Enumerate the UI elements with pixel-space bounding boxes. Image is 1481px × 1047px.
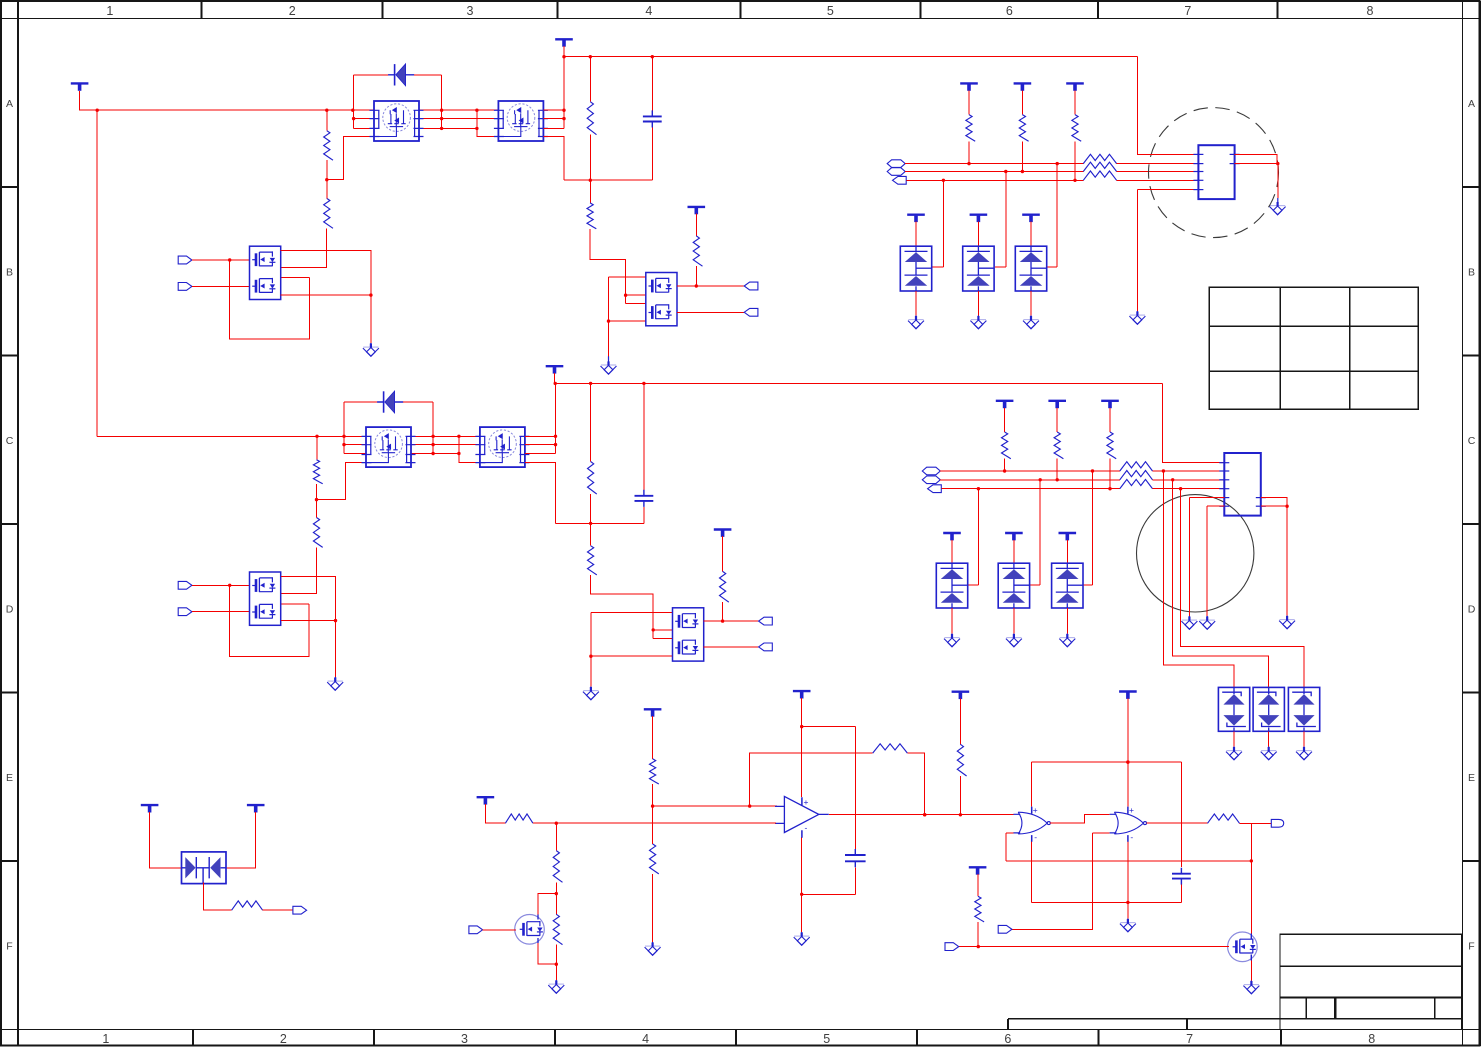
resistor R gate1 ch2 bbox=[313, 460, 322, 484]
resistor R gate2 ch2 bbox=[313, 518, 322, 548]
wire phase p1 bbox=[419, 109, 498, 111]
junction bbox=[431, 452, 434, 455]
svg-text:1: 1 bbox=[106, 4, 113, 18]
wire bbox=[695, 266, 697, 286]
TVS diode pair D bbox=[936, 563, 967, 608]
junction bbox=[315, 435, 318, 438]
wire bbox=[651, 128, 653, 181]
resistor output pull-up bbox=[957, 744, 966, 776]
motor connector J1 bbox=[1198, 145, 1234, 199]
wire bbox=[643, 507, 645, 524]
svg-text:A: A bbox=[1468, 98, 1475, 110]
TVS diode pair D bbox=[900, 246, 931, 291]
pin EN bbox=[945, 943, 959, 951]
wire phase p1 ch2 bbox=[411, 435, 480, 437]
wire IN1A bbox=[192, 259, 250, 261]
wire bbox=[589, 57, 591, 102]
wire U3 gate b bbox=[626, 303, 646, 305]
wire bbox=[590, 494, 592, 523]
wire bbox=[951, 608, 953, 634]
wire bbox=[1092, 832, 1109, 834]
wire hall bus w3 bbox=[906, 179, 1083, 181]
power flag TVS R bbox=[247, 804, 265, 806]
wire Q1 gate bbox=[483, 929, 516, 931]
wire Q1 source loop bbox=[538, 943, 556, 964]
svg-text:2: 2 bbox=[280, 1032, 287, 1046]
wire phase p2 ch2 bbox=[411, 444, 480, 446]
junction bbox=[352, 117, 355, 120]
wire comparator bottom loop bbox=[1032, 901, 1182, 903]
svg-text:B: B bbox=[6, 266, 13, 278]
wire op-amp V- down bbox=[801, 837, 803, 894]
wire bbox=[1153, 488, 1225, 490]
svg-text:-: - bbox=[1130, 832, 1133, 842]
wire U8B- input bbox=[1011, 833, 1092, 929]
capacitor snubber ch2 bbox=[635, 490, 654, 507]
junction bbox=[652, 628, 655, 631]
dual MOSFET driver U6 bbox=[673, 608, 704, 661]
junction bbox=[589, 655, 592, 658]
ground TVS bidi bbox=[1296, 747, 1312, 760]
wire hall bus w2 bbox=[905, 171, 1083, 173]
svg-text:8: 8 bbox=[1368, 1032, 1375, 1046]
wire Q2 source bbox=[1250, 960, 1252, 981]
title block bbox=[1280, 934, 1462, 1029]
wire IN2A bbox=[192, 584, 250, 586]
TVS diode pair D bbox=[1052, 563, 1083, 608]
junction bbox=[651, 55, 654, 58]
wire TVS1 tap bbox=[932, 180, 943, 267]
junction bbox=[315, 498, 318, 501]
wire +V to module M1 bbox=[80, 91, 374, 110]
wire bbox=[907, 753, 924, 815]
resistor feedback bbox=[873, 744, 908, 753]
pin DIR bbox=[998, 925, 1012, 933]
junction bbox=[1179, 487, 1182, 490]
junction bbox=[651, 804, 654, 807]
wire bbox=[1286, 506, 1288, 615]
junction bbox=[589, 179, 592, 182]
wire DC bus ch1 bbox=[564, 56, 1137, 58]
junction bbox=[1056, 478, 1059, 481]
wire bbox=[555, 894, 557, 915]
junction bbox=[1162, 469, 1165, 472]
ground TVS ch2 bbox=[1059, 634, 1075, 647]
pin HALL_C2 bbox=[928, 485, 942, 493]
capacitor comp filter bbox=[1172, 868, 1191, 885]
svg-text:-: - bbox=[1034, 832, 1037, 842]
svg-text:+: + bbox=[804, 797, 809, 807]
wire comp1 V- bbox=[1031, 840, 1033, 902]
svg-text:6: 6 bbox=[1004, 1032, 1011, 1046]
motor connector J2 bbox=[1224, 453, 1261, 516]
resistor series w3 ch2 bbox=[1120, 479, 1153, 488]
dual MOSFET driver U2 bbox=[250, 246, 281, 299]
motor M1 dashed outline bbox=[1149, 108, 1279, 238]
wire bbox=[1268, 731, 1270, 746]
junction bbox=[1276, 162, 1279, 165]
power flag bbox=[1048, 400, 1066, 402]
wire bbox=[1006, 833, 1014, 861]
junction bbox=[554, 382, 557, 385]
wire diode anode rail ch2 bbox=[343, 402, 345, 454]
wire rail ch2 bbox=[556, 522, 644, 524]
ground U5 bbox=[327, 678, 343, 691]
ground divider bbox=[645, 943, 661, 956]
wire vertical feed to channel 2 bbox=[96, 110, 98, 436]
resistor pull-up phase bbox=[1019, 115, 1028, 142]
wire bbox=[1153, 470, 1225, 472]
wire diode cathode rail ch2 bbox=[432, 402, 434, 454]
net flag HALL_B1 bbox=[887, 168, 905, 176]
bidirectional TVS D9 bbox=[182, 852, 227, 884]
op-amp U7 bbox=[784, 796, 818, 832]
wire bbox=[1030, 291, 1032, 316]
junction bbox=[1056, 162, 1059, 165]
svg-text:7: 7 bbox=[1186, 1032, 1193, 1046]
wire U8A out to U8B bbox=[1050, 814, 1109, 823]
svg-text:6: 6 bbox=[1006, 4, 1013, 18]
wire op-amp V+ pin bbox=[801, 698, 803, 797]
wire bbox=[1066, 608, 1068, 634]
wire hysteresis drop bbox=[1250, 823, 1252, 861]
wire to op-amp - bbox=[556, 822, 776, 824]
wire bbox=[1066, 540, 1068, 563]
wire U3 out1 bbox=[677, 285, 744, 287]
bidirectional TVS bbox=[1288, 687, 1319, 731]
wire TVS1 tap ch2 bbox=[968, 489, 979, 586]
wire U5 loop bbox=[230, 585, 309, 656]
wire M1 pin2 bbox=[354, 118, 374, 120]
wire hysteresis to U8A- bbox=[1006, 860, 1251, 862]
junction bbox=[607, 319, 610, 322]
wire Q2 gate line bbox=[959, 946, 1229, 948]
wire U2 loop bbox=[230, 260, 310, 339]
wire DC bus ch2 bbox=[555, 382, 1163, 384]
power flag bbox=[996, 400, 1014, 402]
svg-text:+: + bbox=[1129, 805, 1134, 815]
power flag comparators bbox=[1119, 690, 1137, 692]
ground TVS ch2 bbox=[1006, 634, 1022, 647]
pin IN1A bbox=[178, 256, 192, 264]
TVS diode pair D bbox=[963, 246, 994, 291]
wire rail ch1 bbox=[564, 179, 652, 181]
junction bbox=[1004, 170, 1007, 173]
motor M2 outline bbox=[1137, 495, 1254, 612]
wire to driver U3 bbox=[590, 229, 626, 304]
bidirectional TVS bbox=[1253, 687, 1284, 731]
wire U6 out2 bbox=[704, 646, 759, 648]
wire bbox=[722, 536, 724, 571]
junction bbox=[555, 963, 558, 966]
wire to driver U6 bbox=[591, 575, 654, 639]
pin IN1B bbox=[178, 283, 192, 291]
wire bbox=[722, 602, 724, 621]
svg-text:8: 8 bbox=[1367, 4, 1374, 18]
wire IN1B bbox=[192, 285, 250, 287]
wire bbox=[344, 401, 377, 403]
ground op-amp bbox=[794, 933, 810, 946]
resistor snubber ch2 bbox=[587, 462, 596, 495]
power MOSFET module M2 bbox=[494, 101, 548, 141]
resistor series w1 ch2 bbox=[1120, 462, 1153, 471]
junction bbox=[1126, 760, 1129, 763]
wire U3 left loop bbox=[609, 277, 646, 321]
wire bbox=[1056, 459, 1058, 480]
wire comp1 V+ bbox=[1031, 762, 1033, 807]
wire to M4 pin4 bbox=[459, 436, 480, 462]
wire bbox=[326, 110, 328, 131]
wire comp2 V- to ground bbox=[1127, 840, 1129, 919]
wire bbox=[555, 945, 557, 980]
wire bbox=[802, 726, 856, 728]
junction bbox=[695, 284, 698, 287]
junction bbox=[440, 117, 443, 120]
junction bbox=[721, 619, 724, 622]
diode D1 bbox=[388, 64, 414, 86]
ground motor2 b bbox=[1199, 617, 1215, 630]
wire motor2 pin6 bbox=[1207, 505, 1224, 507]
wire bbox=[1030, 222, 1032, 247]
junction bbox=[589, 522, 592, 525]
net flag HALL_A1 bbox=[887, 160, 905, 168]
svg-text:3: 3 bbox=[461, 1032, 468, 1046]
wire bbox=[652, 806, 654, 844]
wire U8B out bbox=[1146, 822, 1207, 824]
wire hall bus w2 ch2 bbox=[940, 479, 1120, 481]
resistor series w2 ch2 bbox=[1120, 470, 1153, 479]
wire bbox=[1004, 408, 1006, 432]
wire bbox=[652, 874, 654, 942]
power flag TVS bbox=[907, 213, 925, 215]
bidirectional TVS bbox=[1218, 687, 1249, 731]
junction bbox=[1039, 478, 1042, 481]
wire bbox=[959, 699, 961, 745]
diode D2 bbox=[377, 391, 403, 413]
ground motor1 bbox=[1129, 312, 1145, 325]
junction bbox=[1171, 478, 1174, 481]
pin PWM2H bbox=[759, 617, 773, 625]
ground TVS ch2 bbox=[944, 634, 960, 647]
ground TVS bidi bbox=[1226, 747, 1242, 760]
ground motor1 aux bbox=[1270, 202, 1286, 215]
junction bbox=[342, 443, 345, 446]
junction bbox=[334, 619, 337, 622]
wire bbox=[563, 57, 565, 129]
resistor pull-up phase bbox=[966, 115, 975, 142]
wire bbox=[150, 812, 181, 868]
power flag op-amp V+ bbox=[793, 690, 811, 692]
wire TVS3 tap bbox=[1047, 164, 1057, 267]
svg-text:A: A bbox=[6, 98, 13, 110]
MOSFET Q1 bbox=[515, 915, 545, 945]
wire bbox=[1021, 141, 1023, 171]
pin CTRL bbox=[469, 926, 483, 934]
wire M2 pin4 down bbox=[543, 137, 564, 181]
MOSFET Q2 bbox=[1228, 932, 1258, 962]
junction bbox=[440, 127, 443, 130]
wire U3 out2 bbox=[677, 311, 744, 313]
wire bbox=[977, 291, 979, 316]
svg-text:E: E bbox=[1468, 772, 1475, 784]
net flag HALL_B2 bbox=[922, 476, 940, 484]
capacitor op-amp bbox=[845, 849, 866, 867]
wire TVS tap bbox=[204, 883, 232, 911]
wire bbox=[1074, 91, 1076, 115]
junction bbox=[562, 117, 565, 120]
net flag HALL_A2 bbox=[922, 467, 940, 475]
junction bbox=[457, 452, 460, 455]
svg-text:C: C bbox=[1468, 435, 1476, 447]
wire diode anode rail bbox=[353, 75, 355, 128]
wire bbox=[326, 160, 328, 180]
wire M4 outputs bbox=[525, 436, 556, 453]
wire bbox=[1240, 822, 1272, 824]
power flag TVS bbox=[1022, 213, 1040, 215]
wire bbox=[403, 401, 433, 403]
resistor LS mid bbox=[553, 851, 562, 883]
power flag output pull bbox=[952, 691, 970, 693]
wire bbox=[589, 180, 591, 203]
resistor series w2 bbox=[1083, 162, 1116, 171]
wire bbox=[1117, 171, 1199, 173]
junction bbox=[1091, 469, 1094, 472]
wire bbox=[977, 222, 979, 247]
resistor pull-up phase bbox=[1001, 432, 1010, 459]
wire to op-amp + bbox=[653, 805, 777, 807]
junction bbox=[624, 294, 627, 297]
junction bbox=[369, 293, 372, 296]
junction bbox=[1073, 179, 1076, 182]
junction bbox=[440, 109, 443, 112]
ground TVS bidi bbox=[1261, 747, 1277, 760]
resistor output bbox=[1208, 814, 1240, 823]
wire op-amp output bbox=[829, 814, 1014, 816]
wire motor aux2 bbox=[1235, 164, 1278, 198]
junction bbox=[1126, 760, 1129, 763]
junction bbox=[1021, 170, 1024, 173]
wire bbox=[652, 784, 654, 806]
wire bbox=[977, 922, 979, 947]
pin VSENSE bbox=[293, 906, 307, 914]
wire bbox=[1004, 459, 1006, 471]
power flag TVS L bbox=[141, 804, 159, 806]
junction bbox=[642, 382, 645, 385]
pin SPEED out bbox=[1271, 819, 1283, 827]
wire bbox=[554, 373, 556, 384]
wire bbox=[555, 823, 557, 850]
power flag TVS ch2 bbox=[1005, 532, 1023, 534]
junction bbox=[589, 55, 592, 58]
svg-text:C: C bbox=[6, 435, 14, 447]
junction bbox=[589, 382, 592, 385]
resistor LS bottom bbox=[553, 914, 562, 944]
wire U2 drain bbox=[281, 251, 371, 295]
wire bbox=[555, 882, 557, 893]
resistor R drive ch1 bbox=[587, 203, 596, 229]
wire U6 gate a bbox=[653, 629, 672, 631]
svg-text:F: F bbox=[6, 940, 12, 952]
junction bbox=[228, 258, 231, 261]
junction bbox=[325, 109, 328, 112]
wire bbox=[1117, 163, 1199, 165]
ground comparators bbox=[1120, 919, 1136, 932]
wire bus to motor pin1 bbox=[1137, 57, 1198, 155]
wire bbox=[589, 135, 591, 181]
wire phase p3 bbox=[419, 127, 477, 129]
wire bbox=[485, 804, 505, 823]
junction bbox=[555, 822, 558, 825]
wire bbox=[326, 180, 328, 199]
wire bbox=[652, 716, 654, 759]
power flag +V bus ch1 bbox=[555, 38, 573, 40]
wire bbox=[316, 500, 318, 518]
power flag Q2 bbox=[969, 866, 987, 868]
wire phase p3 ch2 bbox=[411, 453, 459, 455]
svg-text:E: E bbox=[6, 772, 13, 784]
wire U6 left loop bbox=[591, 612, 673, 656]
wire bbox=[854, 867, 856, 894]
power flag TVS ch2 bbox=[943, 532, 961, 534]
ground motor2 aux bbox=[1279, 616, 1295, 629]
wire bbox=[854, 727, 856, 850]
wire U2 pin4 bbox=[281, 294, 371, 296]
svg-text:-: - bbox=[805, 823, 808, 833]
power flag U3 bbox=[688, 206, 706, 208]
junction bbox=[228, 584, 231, 587]
resistor divider bottom bbox=[649, 844, 658, 874]
resistor series w1 bbox=[1083, 154, 1116, 163]
wire motor2 pin5 bbox=[1189, 497, 1224, 499]
power flag bbox=[1014, 82, 1032, 84]
wire bbox=[1303, 731, 1305, 746]
ground U2 bbox=[363, 344, 379, 357]
resistor sense bbox=[232, 901, 263, 910]
junction bbox=[967, 162, 970, 165]
wire to ground bbox=[370, 295, 372, 343]
pin PWM2L bbox=[759, 643, 773, 651]
svg-text:5: 5 bbox=[823, 1032, 830, 1046]
wire diode cathode rail bbox=[441, 75, 443, 128]
ground motor2 a bbox=[1181, 617, 1197, 630]
wire phase B to TVS bbox=[1173, 480, 1269, 688]
junction bbox=[325, 178, 328, 181]
junction bbox=[475, 109, 478, 112]
dual MOSFET driver U3 bbox=[646, 273, 677, 326]
wire bbox=[316, 436, 318, 459]
wire bbox=[651, 57, 653, 111]
svg-text:+: + bbox=[1033, 805, 1038, 815]
junction bbox=[800, 893, 803, 896]
wire U6 gate b bbox=[653, 638, 672, 640]
wire bbox=[977, 874, 979, 896]
wire bus to motor2 pin1 bbox=[1163, 383, 1225, 462]
svg-text:2: 2 bbox=[289, 4, 296, 18]
power MOSFET module M1 bbox=[370, 101, 424, 141]
power flag U6 bbox=[714, 528, 732, 530]
wire M2 outputs bbox=[543, 110, 564, 128]
wire bbox=[226, 812, 255, 868]
ground Q2 bbox=[1243, 981, 1259, 994]
wire bbox=[414, 74, 442, 76]
junction bbox=[431, 435, 434, 438]
junction bbox=[977, 487, 980, 490]
wire bbox=[354, 74, 389, 76]
wire to M1 pin4 bbox=[327, 137, 374, 180]
sheet strip bbox=[1008, 1019, 1280, 1030]
wire motor2 aux2 bbox=[1261, 505, 1287, 507]
junction bbox=[800, 725, 803, 728]
